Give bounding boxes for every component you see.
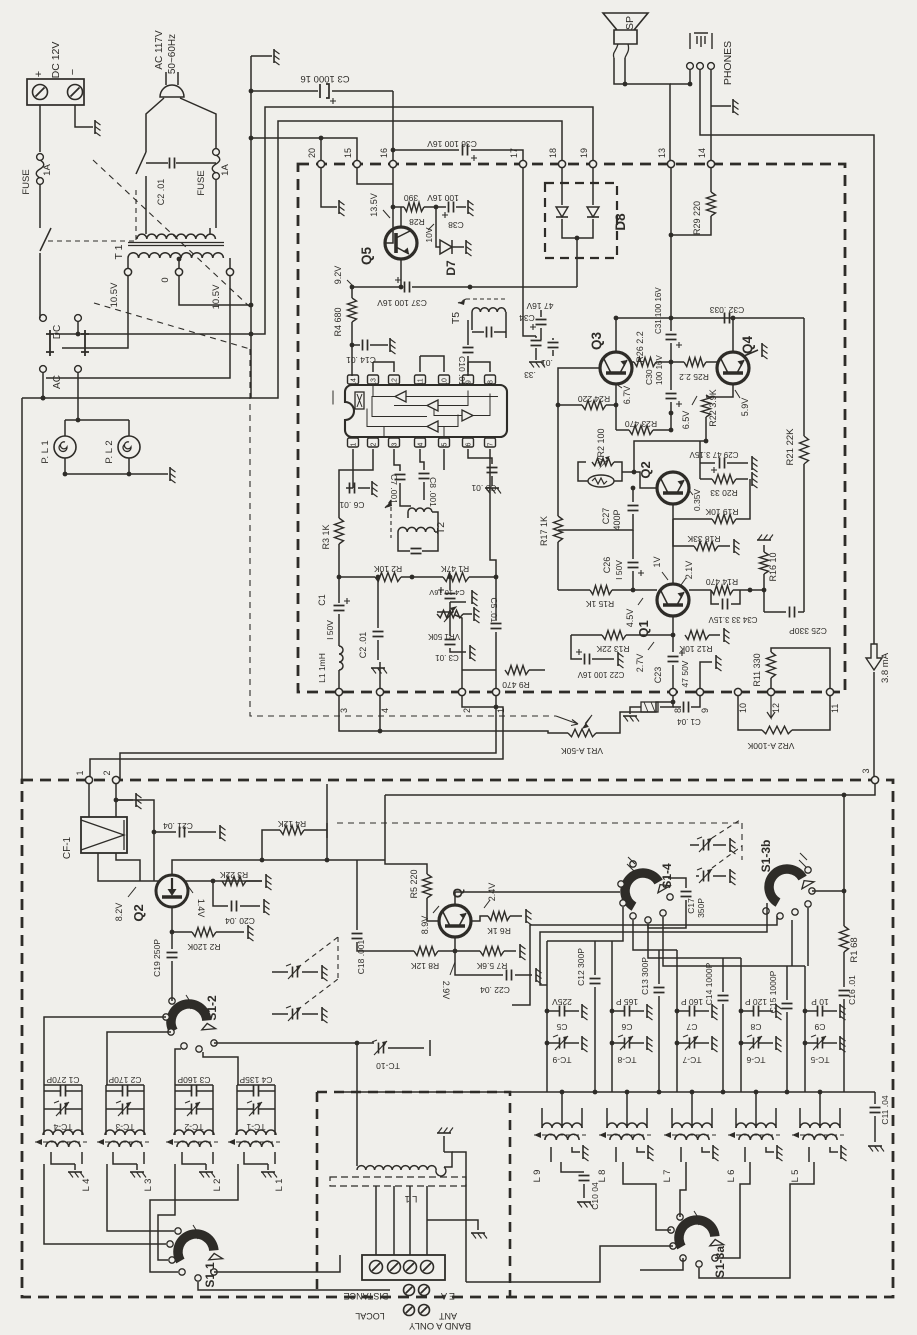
wire (630, 1010, 644, 1012)
ground (646, 1004, 648, 1018)
wire (632, 571, 634, 590)
junction (632, 470, 637, 475)
wire (145, 228, 147, 234)
svg-text:R9 470: R9 470 (502, 680, 530, 690)
wire (370, 344, 388, 346)
capacitor C14 1000P (718, 996, 729, 1001)
wire (175, 1108, 191, 1110)
svg-text:R3 1K: R3 1K (321, 524, 331, 549)
IC pin 8 (485, 375, 496, 384)
svg-text:C34 33 3.15V: C34 33 3.15V (708, 615, 758, 624)
wire (786, 1012, 788, 1092)
junction (260, 858, 265, 863)
wire (65, 473, 168, 475)
ground (711, 1004, 713, 1018)
wire (326, 784, 328, 860)
wire (197, 1108, 213, 1110)
wire (670, 362, 672, 390)
wire (691, 696, 700, 707)
wire (466, 1246, 673, 1282)
svg-text:R6 1K: R6 1K (487, 926, 511, 936)
ground (751, 472, 753, 486)
capacitor C38 (449, 202, 454, 213)
wire (823, 1010, 837, 1012)
svg-text:1.4V: 1.4V (196, 899, 206, 918)
capacitor C4 (445, 594, 456, 599)
wire (552, 338, 554, 340)
wire (237, 1108, 253, 1110)
pointer (627, 857, 635, 871)
rotary switch S1-3b (769, 869, 803, 903)
junction (556, 403, 561, 408)
pin 12 (767, 688, 774, 695)
junction (376, 575, 381, 580)
wire (504, 950, 516, 952)
svg-text:I 50V: I 50V (325, 620, 335, 640)
capacitor C2 (373, 632, 384, 637)
IC U1 body (345, 385, 507, 437)
pin 15 (353, 160, 360, 167)
transformer T5 (458, 299, 506, 303)
wire (379, 662, 381, 688)
resistor R3 22K (222, 877, 246, 886)
svg-text:C5 .01: C5 .01 (489, 597, 499, 622)
wire (491, 476, 493, 486)
svg-text:1: 1 (75, 770, 85, 775)
trimmer TC-9 (560, 1038, 565, 1049)
junction (575, 236, 580, 241)
capacitor C22 (585, 654, 590, 665)
wire (39, 184, 41, 228)
resistor R24 220 (582, 401, 606, 410)
wire (320, 138, 322, 160)
svg-text:C23: C23 (653, 667, 663, 684)
wire (172, 860, 357, 875)
pointer (689, 490, 693, 495)
svg-text:Q: Q (450, 888, 465, 898)
wiper (583, 715, 592, 728)
pin 4 (376, 688, 383, 695)
wire (146, 98, 164, 152)
wire (632, 488, 634, 502)
svg-text:.01: .01 (541, 358, 553, 368)
ground (775, 1004, 777, 1018)
wire (128, 420, 130, 436)
junction (593, 1090, 598, 1095)
wire (392, 91, 394, 160)
fuse 1A (213, 149, 220, 156)
wire (565, 1010, 579, 1012)
svg-text:15: 15 (343, 148, 353, 158)
junction (610, 1041, 615, 1046)
svg-text:S1-3b: S1-3b (759, 840, 773, 873)
resistor R4 12K (280, 826, 304, 835)
pointer (186, 995, 191, 1009)
svg-text:225V: 225V (552, 997, 572, 1007)
thermistor (588, 475, 614, 487)
svg-text:R2 10K: R2 10K (373, 564, 402, 574)
antenna coil L 3 (105, 1130, 145, 1135)
junction (631, 588, 636, 593)
wire (427, 1220, 478, 1230)
wire (670, 343, 672, 362)
IC pin 5 (439, 438, 450, 447)
svg-text:120 P: 120 P (745, 997, 768, 1007)
wire (696, 875, 699, 877)
wire (105, 1085, 107, 1128)
svg-text:T 1: T 1 (113, 244, 125, 259)
wire (700, 662, 712, 688)
resistor R29 (707, 192, 716, 216)
wire (272, 1013, 288, 1015)
switch contact (630, 861, 636, 867)
wire (213, 881, 228, 906)
capacitor C23 (668, 657, 679, 662)
wire (437, 611, 450, 613)
wire rail (385, 784, 875, 795)
ground (729, 838, 731, 852)
svg-text:C2 170P: C2 170P (108, 1075, 141, 1085)
wire (46, 276, 230, 378)
svg-text:10: 10 (738, 703, 748, 713)
capacitor C32 (725, 313, 730, 324)
transistor Q3 (600, 352, 632, 384)
junction (623, 82, 628, 87)
wire (656, 361, 671, 363)
junction (63, 472, 68, 477)
wire (346, 487, 353, 489)
capacitor C14 (363, 340, 368, 351)
wire (494, 331, 506, 333)
junction (325, 858, 330, 863)
capacitor .01 (548, 343, 559, 348)
wire (463, 613, 472, 615)
wire (515, 974, 532, 976)
wire (648, 900, 686, 928)
trimmer TC-10 (379, 1043, 384, 1054)
wire (615, 1147, 617, 1162)
transistor Q5 (385, 227, 417, 259)
IC pin 12 (389, 375, 400, 384)
svg-text:DC: DC (52, 325, 63, 339)
svg-text:ANT: ANT (438, 1311, 457, 1321)
switch contact (630, 913, 636, 919)
wire (259, 1108, 275, 1110)
svg-text:C3 1000 16: C3 1000 16 (300, 73, 349, 84)
screw terminal (404, 1305, 415, 1316)
resistor R2 10K (375, 573, 401, 582)
wire (44, 1164, 166, 1244)
wire (670, 318, 672, 331)
pin 1 (85, 776, 92, 783)
wire (182, 1152, 206, 1164)
wire (759, 1042, 773, 1044)
pin 10 (734, 688, 741, 695)
svg-text:Q3: Q3 (589, 332, 604, 351)
wire (547, 1010, 559, 1012)
wire (592, 168, 594, 205)
transistor Q2 front-end (156, 875, 188, 907)
wire (198, 1282, 390, 1290)
switch contact (777, 913, 783, 919)
capacitor C8 (754, 1006, 759, 1017)
svg-text:C22 .04: C22 .04 (480, 985, 510, 995)
wire (351, 345, 353, 376)
tap 10.5V (124, 268, 131, 275)
svg-text:R1 47K: R1 47K (440, 564, 469, 574)
current arrow 3.8mA (866, 644, 882, 670)
wire (799, 1108, 801, 1128)
rotary switch S1-3a (679, 1220, 715, 1247)
wire (209, 228, 211, 234)
svg-text:TC-5: TC-5 (810, 1055, 829, 1065)
switch contact (677, 1214, 683, 1220)
svg-text:R20 33: R20 33 (710, 488, 738, 498)
pointer (616, 384, 622, 388)
wire (615, 384, 617, 430)
switch contact (211, 1269, 217, 1275)
wire (611, 941, 613, 1092)
wire (632, 361, 634, 363)
svg-text:C13 300P: C13 300P (640, 957, 650, 995)
wire (127, 258, 129, 268)
capacitor C36 (463, 145, 468, 156)
wire (171, 961, 173, 998)
wire (804, 966, 806, 1092)
svg-text:3.8 mA: 3.8 mA (880, 652, 891, 683)
ground (467, 200, 469, 214)
svg-text:9: 9 (466, 380, 473, 384)
wire (786, 966, 788, 1000)
ground (733, 539, 735, 553)
wire (540, 328, 542, 340)
resistor R9 470 (505, 666, 529, 675)
ground (840, 1145, 842, 1159)
wire (711, 590, 719, 604)
wire (262, 830, 280, 860)
wire (490, 449, 496, 577)
wire (791, 920, 793, 966)
svg-text:20: 20 (307, 148, 317, 158)
wire (214, 1255, 340, 1272)
wire (176, 162, 216, 164)
junction (671, 700, 676, 705)
wire (172, 931, 192, 933)
AC plug (160, 72, 184, 97)
potentiometer VR1 A-50K (568, 729, 596, 737)
wire (727, 462, 748, 464)
pointer (484, 900, 490, 908)
svg-text:C26: C26 (602, 557, 612, 574)
wire (358, 487, 370, 489)
ground (582, 1145, 584, 1159)
resistor R19 10K (712, 515, 736, 524)
rectifier D8 boundary (545, 183, 617, 258)
junction (378, 729, 383, 734)
resistor R11 330 (767, 652, 776, 678)
wire (658, 996, 660, 1092)
wire (764, 611, 786, 613)
svg-text:Q4: Q4 (740, 336, 755, 355)
switch contact (680, 1255, 686, 1261)
junction (657, 1090, 662, 1095)
trimmer TC-5 (818, 1038, 823, 1049)
svg-text:C6: C6 (621, 1022, 632, 1032)
junction (453, 949, 458, 954)
wire (472, 331, 484, 333)
wire (630, 1042, 644, 1044)
svg-text:C5: C5 (556, 1022, 567, 1032)
wire (775, 1108, 777, 1128)
screw terminal (68, 85, 83, 100)
switch contact (167, 1241, 173, 1247)
wire (216, 931, 244, 933)
svg-text:R8 12K: R8 12K (410, 961, 439, 971)
wire (44, 1084, 82, 1086)
wire (44, 1017, 166, 1085)
transistor Q (439, 905, 471, 937)
capacitor C31 (666, 335, 677, 340)
wire (388, 1047, 424, 1049)
pointer (188, 886, 193, 893)
IF coil L 6 (736, 1123, 776, 1128)
wire (357, 859, 385, 861)
wire (709, 634, 720, 636)
wire (680, 1147, 682, 1162)
switch contact (792, 909, 798, 915)
wire (616, 429, 629, 431)
svg-text:E A: E A (441, 1291, 455, 1301)
wire (653, 429, 671, 431)
wire (676, 950, 678, 1092)
junction (337, 575, 342, 580)
svg-text:R4 12K: R4 12K (277, 819, 306, 829)
wire (805, 1010, 817, 1012)
wire (561, 1092, 563, 1128)
wire (357, 168, 393, 184)
svg-text:C15 1000P: C15 1000P (768, 970, 778, 1013)
terminal strip (362, 1255, 445, 1280)
wire (128, 1090, 144, 1092)
svg-text:6.5V: 6.5V (681, 411, 691, 430)
wire (259, 1090, 275, 1092)
junction (399, 285, 404, 290)
wire (179, 276, 251, 305)
gang link (337, 937, 339, 979)
wire (175, 1090, 191, 1092)
wire (81, 1152, 83, 1164)
svg-text:R29 220: R29 220 (692, 201, 702, 235)
svg-text:R25 2.2: R25 2.2 (679, 372, 709, 382)
wire (830, 1147, 838, 1152)
wire (658, 950, 660, 984)
ground (647, 1145, 649, 1159)
IC pin 11 (415, 375, 426, 384)
junction (560, 1090, 565, 1095)
junction (818, 1090, 823, 1095)
wire (450, 601, 466, 603)
wire bus right (700, 70, 874, 318)
wire (143, 1085, 145, 1128)
wire (787, 965, 805, 967)
wire (449, 602, 451, 612)
diode D8a (556, 207, 568, 217)
wire (471, 150, 523, 160)
wire (736, 479, 750, 519)
svg-text:DISTANCE: DISTANCE (344, 1291, 389, 1301)
wire (695, 1010, 709, 1012)
wire (700, 462, 715, 464)
svg-text:AC 117V: AC 117V (154, 30, 165, 70)
svg-text:C1 .04: C1 .04 (677, 717, 701, 726)
gang boundary (741, 823, 743, 860)
wire (594, 987, 596, 1092)
ground (465, 240, 467, 254)
svg-text:C22 100 16V: C22 100 16V (577, 670, 624, 679)
wire speaker to pin 13 (614, 58, 670, 160)
capacitor C3 (320, 84, 329, 98)
svg-text:C19 250P: C19 250P (152, 939, 162, 977)
wire (699, 441, 701, 479)
wire (623, 1162, 671, 1230)
wire (375, 1186, 377, 1255)
pin 8 (669, 688, 676, 695)
wire (558, 589, 590, 591)
pin 17 (519, 160, 526, 167)
ground (485, 487, 499, 489)
svg-text:6.7V: 6.7V (622, 386, 632, 405)
wire (90, 707, 503, 779)
capacitor C20 (232, 901, 237, 912)
junction (803, 1009, 808, 1014)
wire (470, 286, 577, 288)
antenna coil L 4 (43, 1130, 83, 1135)
wiper (598, 456, 610, 470)
junction (211, 879, 216, 884)
capacitor C5 (560, 1006, 565, 1017)
svg-text:C21 .04: C21 .04 (163, 821, 193, 831)
resistor R25 2.2 (684, 358, 706, 367)
capacitor (487, 327, 492, 338)
wire (338, 614, 340, 646)
tuner module boundary (22, 780, 893, 1297)
trimmer TC-4 (61, 1104, 66, 1115)
wire (659, 949, 677, 951)
wire (44, 1090, 60, 1092)
capacitor C30 (666, 394, 677, 399)
wire (88, 784, 90, 817)
svg-text:R28: R28 (409, 217, 425, 227)
capacitor C7 (395, 475, 406, 480)
pin 18 (558, 160, 565, 167)
wire (426, 1186, 428, 1255)
svg-text:14: 14 (351, 378, 358, 386)
wire (116, 853, 140, 881)
wire (178, 259, 180, 268)
coil L1 1mH (339, 646, 343, 670)
wire (606, 1108, 608, 1128)
wire (535, 348, 537, 360)
svg-text:Q2: Q2 (638, 461, 653, 478)
svg-text:R14 470: R14 470 (706, 577, 738, 587)
svg-text:−: − (67, 69, 79, 75)
svg-text:+: + (33, 71, 45, 77)
wire (535, 336, 537, 338)
capacitor C2 170P (123, 1086, 128, 1097)
pointer (799, 853, 807, 867)
wire (113, 1152, 137, 1164)
wire (352, 449, 354, 488)
